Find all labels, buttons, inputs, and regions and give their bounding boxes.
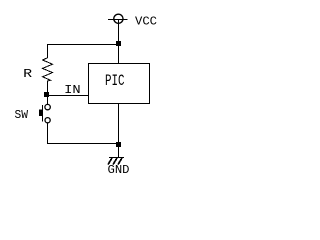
power symbol VCC [108, 14, 128, 23]
svg-text:VCC: VCC [135, 16, 157, 29]
svg-text:SW: SW [15, 109, 29, 122]
node B junction dot (IN) [44, 92, 49, 97]
wire switch down and right to node C [48, 123, 119, 144]
PIC box U1 [89, 64, 150, 104]
wire IN horizontal [47, 95, 89, 97]
wire node B to switch [47, 97, 49, 105]
wire PIC bottom to ground [118, 104, 120, 158]
wire VCC to PIC top [118, 20, 120, 64]
svg-text:R: R [23, 67, 32, 81]
switch SW [45, 104, 50, 122]
wire top horizontal [47, 44, 119, 46]
svg-text:IN: IN [64, 84, 81, 97]
node A junction dot (top) [116, 41, 121, 46]
node C junction dot (bottom) [116, 142, 121, 147]
resistor R [43, 45, 53, 93]
ground [108, 158, 124, 165]
svg-text:PIC: PIC [105, 72, 125, 90]
svg-text:GND: GND [108, 164, 130, 177]
